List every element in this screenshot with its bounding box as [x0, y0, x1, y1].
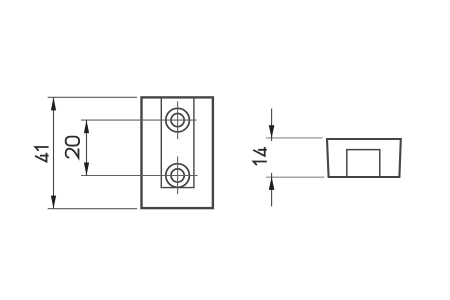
hole H1 vertical centerline	[177, 102, 179, 140]
dimension 41 dimension line	[53, 97, 55, 208]
dimension 41 text label	[35, 147, 49, 162]
hole H2 bore circle	[171, 169, 184, 182]
dimension 14 upper arrowhead	[269, 125, 275, 138]
hole H1 horizontal centerline	[81, 119, 197, 121]
dimension 20 bottom arrowhead	[84, 163, 89, 176]
hole H1 counterbore circle	[166, 108, 190, 132]
slot bottom edge	[161, 187, 195, 189]
dimension 20 text label	[66, 137, 79, 158]
slot right edge	[193, 98, 195, 188]
side view outer outline	[327, 139, 401, 177]
dimension 14 top extension line	[266, 137, 323, 139]
dimension 41 top arrowhead	[51, 97, 56, 110]
dimension 41 top extension line	[48, 96, 137, 98]
dimension 41 bottom arrowhead	[51, 196, 56, 209]
hole H2 horizontal centerline	[81, 175, 198, 177]
hole H1 bore circle	[171, 114, 184, 127]
dimension 14 bottom extension line	[266, 176, 324, 178]
front view outer outline	[142, 97, 213, 208]
dimension 14 lower dimension line	[271, 173, 273, 206]
dimension 14 lower arrowhead	[269, 177, 275, 190]
dimension 14 text label	[253, 147, 267, 165]
hole H2 counterbore circle	[166, 164, 190, 188]
hole H2 vertical centerline	[177, 156, 179, 194]
dimension 14 upper dimension line	[271, 109, 273, 142]
dimension 41 bottom extension line	[48, 208, 137, 210]
dimension 20 top arrowhead	[84, 120, 89, 133]
side view notch outline	[347, 150, 380, 177]
slot left edge	[160, 98, 162, 188]
dimension 20 dimension line	[86, 120, 88, 175]
